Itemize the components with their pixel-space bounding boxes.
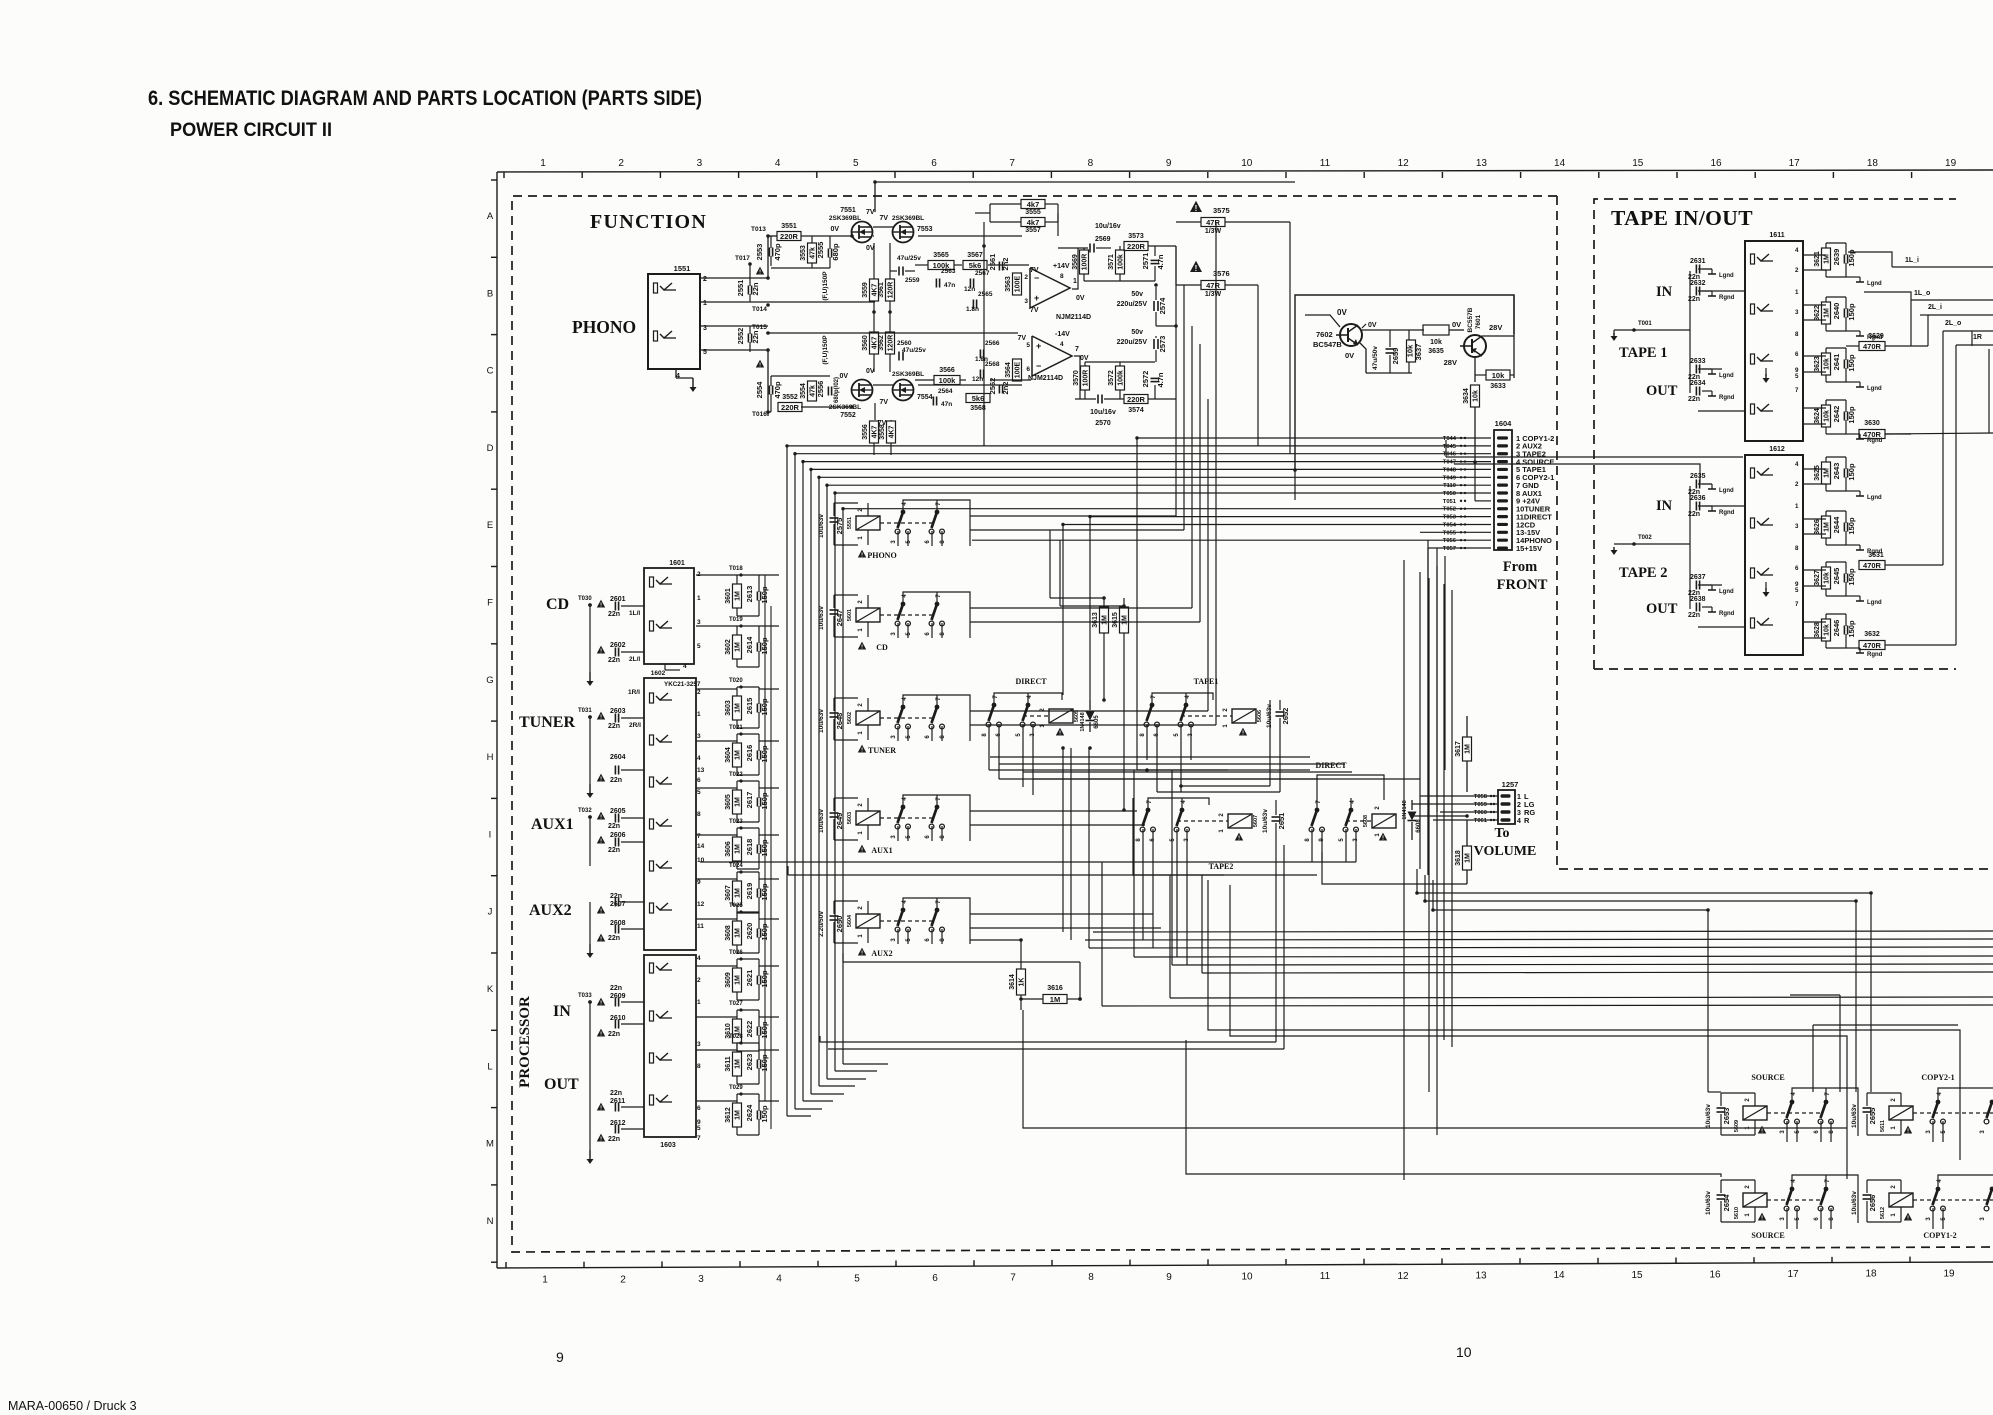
svg-text:5607: 5607 <box>1253 815 1259 827</box>
svg-text:T013: T013 <box>751 226 766 233</box>
wire tape jack input links <box>1689 271 1691 330</box>
svg-text:22n: 22n <box>608 847 620 854</box>
svg-text:14: 14 <box>697 843 705 850</box>
svg-text:Rgnd: Rgnd <box>1719 395 1735 401</box>
svg-text:3611: 3611 <box>725 1056 732 1071</box>
svg-text:3: 3 <box>1517 810 1521 817</box>
relay coil 5609 <box>1743 1106 1767 1120</box>
svg-text:5604: 5604 <box>847 914 853 927</box>
ground T002 <box>1614 543 1634 545</box>
svg-text:5603: 5603 <box>847 812 853 824</box>
svg-text:11: 11 <box>1320 158 1331 169</box>
svg-text:4: 4 <box>683 663 687 670</box>
svg-text:0V: 0V <box>1452 320 1461 329</box>
resistor 3623 10k with capacitor 2641 150p <box>1822 353 1831 375</box>
svg-text:T017: T017 <box>735 255 750 262</box>
wires output network <box>1083 248 1085 250</box>
svg-text:10k: 10k <box>1824 410 1831 422</box>
wire bottom of 2659/3637 <box>1366 372 1412 374</box>
svg-text:22n: 22n <box>608 823 620 830</box>
svg-text:5: 5 <box>1026 342 1030 349</box>
wire middle row y779 <box>1033 778 1420 780</box>
svg-text:680p: 680p <box>831 243 840 261</box>
svg-text:100k: 100k <box>1118 254 1125 270</box>
svg-text:2566: 2566 <box>985 340 1000 347</box>
wire 7602 emitter down <box>1360 343 1366 373</box>
svg-text:2574: 2574 <box>1158 297 1167 315</box>
svg-text:T031: T031 <box>578 708 592 714</box>
connector 1257 body <box>1498 790 1515 824</box>
svg-text:3617: 3617 <box>1455 741 1462 757</box>
junction dots on bus <box>873 180 877 184</box>
capacitor 2551 22n <box>747 286 749 295</box>
relay coil 5606 <box>1232 709 1256 723</box>
connector 1604 body <box>1494 430 1512 550</box>
svg-text:3634: 3634 <box>1463 388 1470 404</box>
connector 1612 jack 1 <box>1751 468 1755 478</box>
resistor 3556 4k7 <box>870 421 879 443</box>
svg-text:!: ! <box>861 748 863 754</box>
svg-text:1: 1 <box>1517 794 1521 801</box>
svg-text:!: ! <box>1238 836 1240 842</box>
svg-text:2620: 2620 <box>745 923 754 940</box>
svg-text:2624: 2624 <box>745 1104 754 1122</box>
svg-text:6608: 6608 <box>1416 819 1422 833</box>
svg-text:150p: 150p <box>1847 517 1856 535</box>
resistor 3613 1M <box>1100 607 1109 633</box>
2632 Rgnd symbol <box>1702 290 1712 292</box>
svg-text:3554: 3554 <box>800 383 807 399</box>
jack 1602 aux2 R <box>650 903 654 913</box>
svg-text:1M: 1M <box>1824 522 1831 532</box>
svg-text:10: 10 <box>1241 158 1253 169</box>
wire joining bottom of 2553/3553/2555 <box>771 267 830 269</box>
svg-text:1M: 1M <box>1465 853 1472 863</box>
wire relay output row y928 <box>970 927 1161 929</box>
wire nest vertical x827 <box>826 485 828 1079</box>
svg-text:0V: 0V <box>1076 295 1085 302</box>
svg-text:!: ! <box>1242 731 1244 737</box>
svg-text:C: C <box>487 366 494 377</box>
svg-text:6: 6 <box>1795 351 1799 358</box>
svg-text:T044: T044 <box>1443 436 1457 442</box>
relay 5603 switch frame wires <box>903 795 970 841</box>
svg-text:2: 2 <box>1024 274 1028 281</box>
wire tape exit y331 <box>1943 330 1993 332</box>
svg-text:7V: 7V <box>866 209 875 216</box>
wire phono relay feed verticals <box>983 222 985 446</box>
resistor 3557 4k7 <box>1021 218 1045 227</box>
warning triangle 2605 <box>597 812 605 820</box>
svg-text:2619: 2619 <box>745 883 754 900</box>
svg-text:POWER CIRCUIT II: POWER CIRCUIT II <box>170 120 332 141</box>
relay 5602 switch frame wires <box>903 695 970 741</box>
link wire source relay feed <box>1708 1091 1721 1093</box>
svg-text:5609: 5609 <box>1734 1120 1740 1132</box>
svg-text:T055: T055 <box>1443 530 1457 536</box>
svg-text:T002: T002 <box>1638 535 1652 541</box>
connector 1257 pins <box>1501 794 1511 797</box>
wire relay output row y530 <box>970 529 1184 531</box>
svg-text:7601: 7601 <box>1475 314 1482 329</box>
svg-text:(F,U)150P: (F,U)150P <box>822 335 829 365</box>
svg-text:!: ! <box>600 909 602 915</box>
svg-text:G: G <box>486 675 493 686</box>
svg-text:T032: T032 <box>578 808 592 814</box>
svg-text:3633: 3633 <box>1490 383 1506 390</box>
svg-text:3637: 3637 <box>1414 344 1423 361</box>
svg-text:0V: 0V <box>1345 351 1354 360</box>
svg-text:18: 18 <box>1865 1269 1877 1280</box>
wire function output vertical x1184 <box>1183 285 1185 530</box>
wire 7602 collector row <box>1362 329 1390 331</box>
wire 1604 bus row y477 <box>819 476 1491 478</box>
svg-text:18: 18 <box>1867 158 1879 169</box>
svg-text:2569: 2569 <box>1095 236 1111 243</box>
verticals TAPE1 legs to middle rows <box>1146 724 1148 757</box>
connector 1611 body <box>1745 241 1803 441</box>
svg-text:3561: 3561 <box>878 282 885 298</box>
relay 5610 warning triangle <box>1758 1213 1766 1221</box>
DIRECT right dashed link <box>1346 820 1372 822</box>
svg-text:0V: 0V <box>830 226 839 233</box>
relay 5602 switch 1 <box>901 705 906 710</box>
wire 3618 bottom hook <box>1322 852 1467 884</box>
resistor 3568 5k6 <box>966 394 990 403</box>
svg-text:T048: T048 <box>1443 467 1457 473</box>
svg-text:22n: 22n <box>608 935 620 942</box>
vertical feeds from bus to To VOLUME region <box>1419 532 1421 869</box>
svg-text:TAPE 2: TAPE 2 <box>1619 565 1667 581</box>
wire opamp1 output to 2569 row <box>1072 248 1078 289</box>
wire drain bus lower <box>873 384 893 386</box>
svg-text:47u/25v: 47u/25v <box>897 255 921 262</box>
wire to source relay cap <box>1433 880 1708 1092</box>
wires feedback network <box>990 203 1021 205</box>
TAPE1 switch 1 <box>1150 703 1155 708</box>
svg-text:3565: 3565 <box>933 252 949 259</box>
svg-text:1603: 1603 <box>660 1142 676 1149</box>
jack 1602 tuner R <box>650 735 654 745</box>
svg-text:220u/25V: 220u/25V <box>1117 339 1148 346</box>
svg-text:F: F <box>487 598 493 609</box>
svg-text:2635: 2635 <box>1690 473 1706 480</box>
svg-text:12n: 12n <box>964 286 975 293</box>
svg-text:3573: 3573 <box>1128 233 1144 240</box>
horizontal links near 1257 <box>1404 795 1475 797</box>
DIRECT right switch 2 <box>1349 808 1354 813</box>
capacitor 2570 10u/16v <box>1097 395 1099 404</box>
svg-text:OUT: OUT <box>1646 383 1678 399</box>
svg-text:15+15V: 15+15V <box>1516 544 1542 553</box>
wire 7601 collector down <box>1474 357 1476 382</box>
2631 Lgnd symbol <box>1702 268 1712 270</box>
wire 7602 collector to 0V node <box>1362 324 1366 328</box>
warning triangle 3576 <box>1190 261 1202 272</box>
wire input row y1017 <box>696 1016 737 1018</box>
svg-text:D: D <box>487 443 494 454</box>
svg-text:47R: 47R <box>1206 281 1220 290</box>
svg-text:3575: 3575 <box>1213 206 1230 215</box>
svg-text:-14V: -14V <box>1055 331 1070 338</box>
DIRECT left switch 1 <box>992 703 997 708</box>
svg-text:+: + <box>1036 341 1041 351</box>
svg-text:MARA-00650 / Druck 3: MARA-00650 / Druck 3 <box>8 1399 137 1413</box>
resistor 3617 1M <box>1463 737 1472 761</box>
relay 5612 frame wires clipped <box>1938 1175 1993 1189</box>
nest bottom hooks <box>787 1115 811 1117</box>
svg-text:15: 15 <box>1632 158 1644 169</box>
svg-text:3552: 3552 <box>782 394 798 401</box>
svg-text:3: 3 <box>698 1274 704 1285</box>
FET 7553 <box>893 222 914 243</box>
wire middle row y764 <box>999 763 1345 765</box>
svg-text:6: 6 <box>1026 366 1030 373</box>
svg-text:VOLUME: VOLUME <box>1474 844 1537 859</box>
svg-text:T049: T049 <box>1443 475 1457 481</box>
svg-text:2572: 2572 <box>1141 371 1150 388</box>
svg-text:3621: 3621 <box>1814 251 1821 267</box>
svg-text:220R: 220R <box>1127 395 1146 404</box>
svg-text:47n: 47n <box>944 282 955 289</box>
svg-text:Lgnd: Lgnd <box>1867 495 1882 501</box>
wire tape exit y345 <box>1956 344 1993 346</box>
svg-text:22n: 22n <box>608 1136 620 1143</box>
svg-text:3553: 3553 <box>800 245 807 261</box>
svg-text:T026: T026 <box>729 950 743 956</box>
capacitor 2562 2n2 <box>998 385 1000 394</box>
svg-text:22n: 22n <box>751 282 760 295</box>
svg-text:3624: 3624 <box>1814 408 1821 424</box>
svg-text:2639: 2639 <box>1832 249 1841 266</box>
svg-text:Lgnd: Lgnd <box>1719 589 1734 595</box>
svg-text:1M: 1M <box>1122 615 1129 625</box>
TAPE1 warning triangle <box>1239 728 1247 736</box>
relay 5611 frame wires clipped <box>1938 1088 1993 1102</box>
2645 Lgnd symbol <box>1846 595 1860 597</box>
svg-text:T028: T028 <box>729 1034 743 1040</box>
wire nest vertical x803 <box>802 462 804 1101</box>
2638 Rgnd symbol <box>1702 606 1712 608</box>
svg-text:120R: 120R <box>888 335 895 352</box>
svg-text:R: R <box>1524 816 1530 825</box>
relay 5612 switch 2 clipped <box>1990 1187 1993 1192</box>
ground arrow inside 1612 <box>1765 582 1767 590</box>
svg-text:1M: 1M <box>735 591 742 601</box>
svg-text:3612: 3612 <box>725 1107 732 1123</box>
svg-text:2634: 2634 <box>1690 380 1706 387</box>
svg-text:150p: 150p <box>760 1105 769 1123</box>
svg-text:COPY1-2: COPY1-2 <box>1923 1231 1956 1240</box>
relay coil 5604 <box>856 914 880 928</box>
svg-text:1.8n: 1.8n <box>966 306 979 313</box>
relay 5602 warning triangle <box>858 745 866 753</box>
svg-text:5608: 5608 <box>1363 815 1369 827</box>
ground T001 <box>1614 329 1634 331</box>
svg-text:3601: 3601 <box>725 588 732 604</box>
wire input row y1050 <box>696 1049 737 1051</box>
jack J1551b <box>654 331 658 341</box>
svg-text:7: 7 <box>1795 601 1799 608</box>
capacitor 2555 680p <box>827 249 829 258</box>
svg-text:T058: T058 <box>1474 794 1488 800</box>
svg-text:2646: 2646 <box>1832 620 1841 637</box>
wire fan row y957 <box>1134 956 1993 957</box>
resistor 3569 100R <box>1080 250 1089 274</box>
ground arrow inside 1611 <box>1765 368 1767 376</box>
wire 3635 to 7601 base <box>1449 329 1464 331</box>
wire relay output row y622 <box>970 621 1200 623</box>
svg-text:7: 7 <box>1010 1273 1016 1284</box>
transistor 7601 BC557B <box>1464 335 1486 357</box>
svg-text:I: I <box>489 829 492 840</box>
wires tape1 jacks to rc pairs <box>1803 254 1826 256</box>
tape board internal verticals <box>1910 300 1912 346</box>
2643 Lgnd symbol <box>1846 490 1860 492</box>
svg-text:220R: 220R <box>1127 242 1146 251</box>
warning triangle near 2552 <box>756 360 764 368</box>
svg-text:2551: 2551 <box>736 280 745 297</box>
svg-text:470R: 470R <box>1863 430 1882 439</box>
wires 3613 3615 top feeds <box>1050 597 1104 599</box>
svg-text:H: H <box>487 752 494 763</box>
wire 3629 row <box>1846 345 1859 347</box>
svg-text:5601: 5601 <box>847 609 853 621</box>
svg-text:+: + <box>1034 293 1039 303</box>
wire vertical to fan x1172 <box>1171 770 1173 965</box>
svg-text:!: ! <box>600 815 602 821</box>
svg-text:!: ! <box>861 553 863 559</box>
wire 3632 row <box>1885 644 1956 646</box>
svg-text:470R: 470R <box>1863 641 1882 650</box>
svg-text:!: ! <box>600 603 602 609</box>
svg-text:1602: 1602 <box>651 670 666 677</box>
wire 1604 bus row y548 <box>1428 547 1491 549</box>
wire 1604 bus row y445 <box>787 445 1491 447</box>
relay 5601 switch frame wires <box>903 592 970 638</box>
svg-text:5612: 5612 <box>1880 1207 1886 1219</box>
relay 5551 actuation dashed link <box>880 522 934 524</box>
svg-text:3570: 3570 <box>1073 370 1080 386</box>
relay 5609 switch 2 <box>1824 1100 1829 1105</box>
svg-text:13: 13 <box>1476 158 1488 169</box>
wire 1604 bus row y532 <box>1420 531 1491 533</box>
wire relay output row y811 <box>970 810 1137 812</box>
svg-text:1R/I: 1R/I <box>628 689 640 696</box>
wire relay output row y608 <box>970 607 1192 609</box>
svg-text:2: 2 <box>618 158 624 169</box>
svg-text:7: 7 <box>1075 346 1079 353</box>
ground below processor <box>589 1002 591 1150</box>
relay 5611 warning triangle <box>1904 1126 1912 1134</box>
wire 1604 bus row y540 <box>972 539 1491 541</box>
svg-text:10u/63v: 10u/63v <box>1705 1104 1712 1128</box>
wire 5608 coil to 1257 <box>1396 820 1412 822</box>
svg-text:Lgnd: Lgnd <box>1719 488 1734 494</box>
svg-text:2623: 2623 <box>745 1054 754 1071</box>
svg-text:2553: 2553 <box>755 244 764 261</box>
svg-text:3567: 3567 <box>967 252 983 259</box>
relay 5601 warning triangle <box>858 642 866 650</box>
svg-text:2555: 2555 <box>816 242 825 259</box>
wire long row y1174 <box>1186 1040 1721 1177</box>
function area long feed wires <box>875 181 1295 183</box>
svg-text:8: 8 <box>697 811 701 818</box>
DIRECT right frame wires <box>1317 775 1384 810</box>
svg-text:3616: 3616 <box>1047 985 1063 992</box>
wire fan row y948 <box>1089 947 1993 948</box>
wire input row y575 <box>696 574 737 576</box>
wire vertical to fan x1063 <box>1062 748 1064 932</box>
svg-text:From: From <box>1503 559 1537 575</box>
svg-text:3607: 3607 <box>725 885 732 901</box>
svg-text:T029: T029 <box>729 1085 743 1091</box>
relay 5611 switch 1 <box>1936 1100 1941 1105</box>
resistor 3564 100E <box>1013 359 1022 381</box>
svg-text:FRONT: FRONT <box>1497 577 1548 593</box>
svg-text:8: 8 <box>697 1063 701 1070</box>
svg-text:100E: 100E <box>1015 362 1022 379</box>
FET 7552 <box>852 380 873 401</box>
svg-text:T054: T054 <box>1443 522 1457 528</box>
svg-text:220R: 220R <box>781 403 800 412</box>
svg-text:11: 11 <box>697 923 704 930</box>
border frame bottom horizontal line <box>497 1262 1993 1268</box>
svg-text:N: N <box>487 1216 494 1227</box>
svg-text:10u/63v: 10u/63v <box>1851 1104 1858 1128</box>
svg-text:7551: 7551 <box>840 207 856 214</box>
svg-text:150p: 150p <box>1847 303 1856 321</box>
svg-text:T018: T018 <box>729 566 743 572</box>
svg-text:3574: 3574 <box>1128 407 1144 414</box>
svg-text:2656: 2656 <box>1868 1195 1877 1212</box>
svg-text:T025: T025 <box>729 903 743 909</box>
relay 5603 switch 1 <box>901 805 906 810</box>
jack 1603 in R <box>650 1011 654 1021</box>
svg-text:5610: 5610 <box>1734 1207 1740 1219</box>
svg-text:47u/50v: 47u/50v <box>1372 346 1379 370</box>
svg-text:9: 9 <box>556 1349 564 1365</box>
svg-text:T024: T024 <box>729 863 743 869</box>
wire function output vertical x1176 <box>1175 246 1177 516</box>
wire 1604 bus row y469 <box>811 468 1491 470</box>
svg-text:2570: 2570 <box>1095 420 1111 427</box>
svg-text:Lgnd: Lgnd <box>1719 273 1734 279</box>
svg-text:2560: 2560 <box>897 340 912 347</box>
jack 1603 out L <box>650 1053 654 1063</box>
svg-text:2638: 2638 <box>1690 596 1706 603</box>
svg-text:470R: 470R <box>1863 342 1882 351</box>
svg-text:T019: T019 <box>729 617 743 623</box>
svg-text:22n: 22n <box>610 777 622 784</box>
2641 Lgnd symbol <box>1846 381 1860 383</box>
resistor 3635 10k <box>1423 325 1449 335</box>
wire to source relay top <box>1425 875 1856 1092</box>
relay 5604 switch frame wires <box>903 898 970 944</box>
2646 Rgnd symbol <box>1846 647 1860 649</box>
svg-text:DIRECT: DIRECT <box>1015 677 1047 686</box>
svg-text:2653: 2653 <box>1722 1108 1731 1125</box>
connector 1612 jack 3 <box>1751 568 1755 578</box>
connector 1612 jack 2 <box>1751 518 1755 528</box>
svg-text:E: E <box>487 520 493 531</box>
svg-text:470p: 470p <box>773 381 782 399</box>
svg-text:4: 4 <box>1795 247 1799 254</box>
tape board dashed outline <box>1594 199 1956 669</box>
wire input row y689 <box>696 688 737 690</box>
wire middle row y757 <box>990 756 1310 758</box>
svg-text:J: J <box>488 907 493 918</box>
